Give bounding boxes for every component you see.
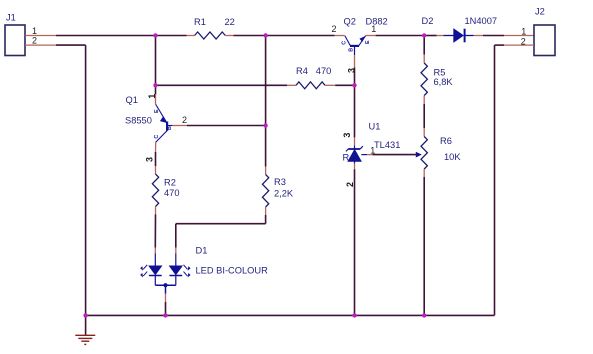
svg-text:LED BI-COLOUR: LED BI-COLOUR	[196, 266, 269, 276]
svg-text:Q2: Q2	[344, 17, 356, 27]
svg-text:3: 3	[347, 68, 357, 73]
svg-text:1: 1	[147, 94, 157, 99]
svg-text:10K: 10K	[444, 152, 461, 162]
svg-text:3: 3	[342, 133, 352, 138]
svg-text:R2: R2	[164, 178, 176, 188]
svg-text:6,8K: 6,8K	[434, 77, 454, 87]
svg-text:22: 22	[225, 17, 235, 27]
svg-text:B: B	[167, 126, 173, 130]
svg-text:J2: J2	[535, 7, 545, 17]
svg-text:2: 2	[32, 35, 37, 45]
svg-text:2,2K: 2,2K	[274, 189, 294, 199]
svg-text:S8550: S8550	[125, 116, 152, 126]
svg-text:2: 2	[182, 115, 187, 125]
svg-text:TL431: TL431	[374, 140, 400, 150]
svg-text:3: 3	[145, 157, 155, 162]
svg-text:Q1: Q1	[126, 95, 138, 105]
svg-text:B: B	[348, 48, 354, 52]
svg-text:470: 470	[316, 66, 332, 76]
svg-text:D1: D1	[196, 246, 208, 256]
svg-text:E: E	[365, 40, 371, 44]
svg-text:C: C	[154, 135, 160, 139]
svg-text:2: 2	[332, 24, 337, 34]
svg-text:E: E	[154, 109, 160, 113]
svg-text:R3: R3	[274, 177, 286, 187]
svg-text:U1: U1	[369, 122, 381, 132]
svg-text:R4: R4	[296, 66, 308, 76]
svg-text:1: 1	[371, 24, 376, 34]
svg-text:D882: D882	[366, 17, 388, 27]
svg-text:R1: R1	[194, 17, 206, 27]
svg-text:J1: J1	[6, 13, 16, 23]
svg-text:1N4007: 1N4007	[465, 16, 498, 26]
svg-text:2: 2	[345, 182, 355, 187]
svg-text:C: C	[342, 41, 348, 45]
svg-text:D2: D2	[422, 16, 434, 26]
svg-text:R5: R5	[434, 68, 446, 78]
svg-text:1: 1	[521, 27, 526, 37]
svg-text:470: 470	[164, 188, 180, 198]
svg-text:R6: R6	[440, 136, 452, 146]
